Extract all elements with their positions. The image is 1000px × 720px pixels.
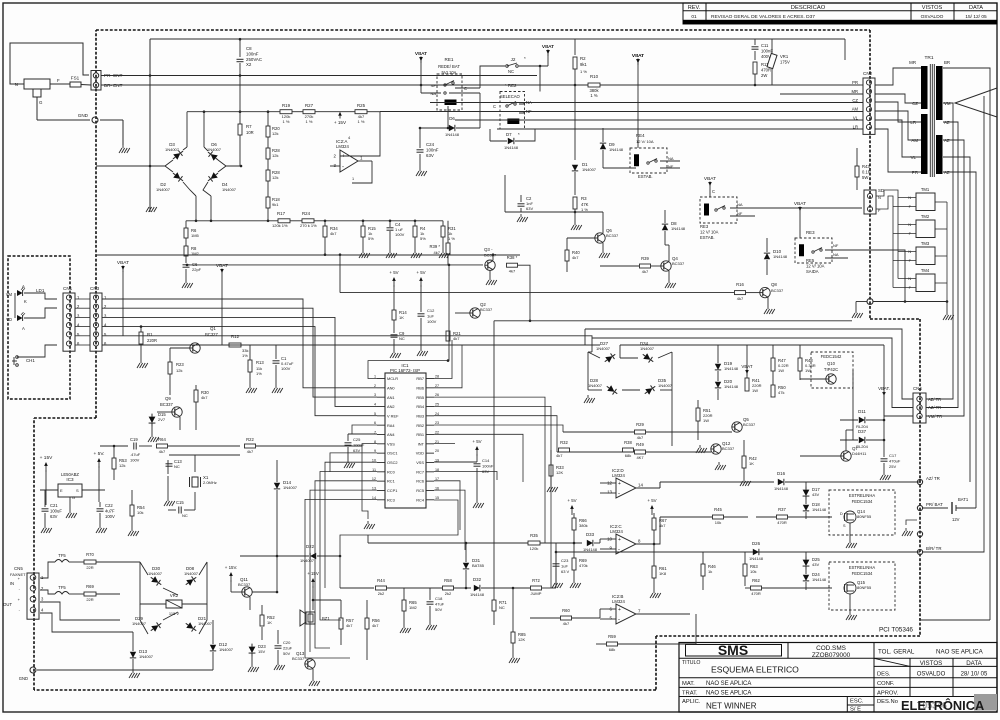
svg-text:15V: 15V bbox=[258, 649, 265, 654]
svg-text:R3: R3 bbox=[581, 196, 587, 201]
svg-text:10k: 10k bbox=[137, 510, 143, 515]
svg-text:12K: 12K bbox=[518, 637, 525, 642]
svg-text:C: C bbox=[464, 86, 467, 91]
svg-text:N: N bbox=[15, 82, 18, 87]
svg-text:R7: R7 bbox=[246, 124, 252, 129]
svg-text:250VAC: 250VAC bbox=[246, 57, 262, 62]
svg-text:NAO SE APLICA: NAO SE APLICA bbox=[936, 649, 984, 656]
svg-text:Q10: Q10 bbox=[827, 361, 836, 366]
svg-text:R37: R37 bbox=[778, 507, 786, 512]
svg-text:43V: 43V bbox=[812, 492, 819, 497]
svg-text:+ 5V: + 5V bbox=[416, 270, 425, 275]
svg-text:TF5: TF5 bbox=[58, 553, 66, 558]
svg-text:100nF: 100nF bbox=[246, 51, 259, 56]
svg-text:+: + bbox=[342, 154, 345, 160]
svg-text:4k7: 4k7 bbox=[159, 449, 166, 454]
svg-text:TM4: TM4 bbox=[921, 268, 930, 273]
svg-text:RC5: RC5 bbox=[416, 488, 424, 493]
svg-text:4k7: 4k7 bbox=[737, 296, 744, 301]
svg-text:1N4148: 1N4148 bbox=[749, 556, 764, 561]
svg-text:12k: 12k bbox=[176, 368, 182, 373]
svg-text:100nF: 100nF bbox=[482, 463, 494, 468]
svg-text:NC: NC bbox=[499, 605, 505, 610]
svg-text:CN5: CN5 bbox=[14, 566, 23, 571]
svg-text:C24: C24 bbox=[426, 142, 435, 147]
svg-text:LE50ABZ: LE50ABZ bbox=[61, 472, 79, 477]
svg-text:50V: 50V bbox=[435, 607, 442, 612]
svg-text:PCI T05346: PCI T05346 bbox=[879, 627, 913, 634]
svg-text:E: E bbox=[60, 488, 63, 493]
svg-text:5%: 5% bbox=[368, 236, 374, 241]
svg-text:LM324: LM324 bbox=[336, 144, 349, 149]
svg-text:1M2: 1M2 bbox=[409, 605, 418, 610]
svg-text:NC: NC bbox=[174, 464, 180, 469]
svg-text:1N4007: 1N4007 bbox=[582, 167, 597, 172]
svg-text:PR: PR bbox=[852, 80, 858, 85]
svg-text:D6: D6 bbox=[449, 116, 455, 121]
svg-text:VM: VM bbox=[6, 292, 13, 297]
svg-text:REDE/ BAT: REDE/ BAT bbox=[438, 64, 460, 69]
svg-text:VR1: VR1 bbox=[780, 54, 789, 59]
svg-text:APLIC.: APLIC. bbox=[682, 699, 701, 705]
svg-text:+ 5V: + 5V bbox=[647, 498, 656, 503]
svg-text:TITULO: TITULO bbox=[682, 660, 700, 666]
svg-text:R39 *: R39 * bbox=[430, 244, 441, 249]
svg-text:R23: R23 bbox=[176, 362, 184, 367]
svg-text:1N4007: 1N4007 bbox=[219, 647, 234, 652]
svg-text:120k 1%: 120k 1% bbox=[272, 223, 288, 228]
svg-text:R22: R22 bbox=[246, 437, 254, 442]
svg-text:43V: 43V bbox=[812, 562, 819, 567]
svg-text:FEDC1534: FEDC1534 bbox=[852, 571, 873, 576]
svg-text:VDD: VDD bbox=[416, 451, 424, 456]
svg-text:1K: 1K bbox=[749, 461, 754, 466]
svg-text:-: - bbox=[618, 491, 620, 497]
svg-text:DES.No: DES.No bbox=[877, 699, 898, 705]
svg-text:VBAT: VBAT bbox=[117, 260, 129, 266]
svg-text:VBAT: VBAT bbox=[704, 176, 716, 182]
svg-text:175V: 175V bbox=[780, 59, 790, 64]
svg-text:1N4148: 1N4148 bbox=[445, 132, 460, 137]
svg-text:VBAT: VBAT bbox=[542, 44, 554, 50]
svg-text:ESTAB.: ESTAB. bbox=[638, 174, 653, 179]
svg-text:C20: C20 bbox=[283, 640, 291, 645]
svg-text:REV.: REV. bbox=[688, 5, 701, 11]
svg-text:APROV.: APROV. bbox=[877, 690, 899, 696]
svg-text:63 V: 63 V bbox=[561, 569, 570, 574]
svg-text:R16: R16 bbox=[736, 282, 744, 287]
svg-text:A: A bbox=[22, 326, 25, 331]
svg-text:9k1: 9k1 bbox=[580, 62, 587, 67]
svg-text:2V7: 2V7 bbox=[158, 417, 166, 422]
svg-text:470R: 470R bbox=[751, 591, 761, 596]
svg-text:10k: 10k bbox=[750, 569, 756, 574]
svg-text:TM1: TM1 bbox=[921, 187, 930, 192]
svg-text:1N4007: 1N4007 bbox=[184, 571, 199, 576]
svg-text:26: 26 bbox=[435, 393, 439, 397]
svg-text:DATA: DATA bbox=[969, 5, 983, 11]
svg-text:47uF: 47uF bbox=[435, 601, 445, 606]
svg-text:4k7: 4k7 bbox=[572, 255, 579, 260]
svg-text:470k: 470k bbox=[579, 563, 588, 568]
svg-text:CCP1: CCP1 bbox=[387, 488, 397, 493]
svg-text:TM3: TM3 bbox=[921, 241, 930, 246]
svg-text:RB5: RB5 bbox=[416, 395, 424, 400]
svg-text:22: 22 bbox=[435, 430, 439, 434]
svg-text:22R: 22R bbox=[86, 565, 93, 570]
svg-text:-: - bbox=[618, 617, 620, 623]
svg-text:1 %: 1 % bbox=[580, 69, 587, 74]
svg-text:R32: R32 bbox=[560, 440, 568, 445]
svg-text:12k: 12k bbox=[119, 463, 125, 468]
svg-text:REVISAO GERAL DE VALORES E ACR: REVISAO GERAL DE VALORES E ACRES. D37 bbox=[711, 14, 815, 20]
svg-text:X2: X2 bbox=[246, 62, 252, 67]
svg-text:100V: 100V bbox=[427, 319, 437, 324]
svg-text:R24: R24 bbox=[302, 211, 311, 216]
svg-text:RA4: RA4 bbox=[387, 423, 395, 428]
svg-text:R59: R59 bbox=[608, 634, 616, 639]
svg-text:1N4007: 1N4007 bbox=[640, 346, 655, 351]
svg-text:COD.SMS: COD.SMS bbox=[816, 645, 846, 652]
svg-text:NA: NA bbox=[737, 202, 743, 207]
svg-text:100V: 100V bbox=[130, 457, 140, 462]
svg-text:C17: C17 bbox=[889, 453, 897, 458]
svg-text:BAT85: BAT85 bbox=[472, 563, 485, 568]
svg-text:RC0: RC0 bbox=[387, 469, 396, 474]
svg-text:20: 20 bbox=[435, 449, 439, 453]
svg-text:ESTRELINHA: ESTRELINHA bbox=[849, 493, 876, 498]
svg-text:RC7: RC7 bbox=[416, 469, 424, 474]
svg-text:D37: D37 bbox=[858, 429, 867, 434]
svg-text:1N4007: 1N4007 bbox=[207, 147, 222, 152]
svg-text:*: * bbox=[518, 132, 520, 137]
svg-text:BC337: BC337 bbox=[480, 307, 493, 312]
svg-text:25V: 25V bbox=[889, 464, 896, 469]
svg-text:4k7: 4k7 bbox=[330, 231, 337, 236]
svg-text:C23: C23 bbox=[561, 558, 569, 563]
svg-text:RC4: RC4 bbox=[416, 497, 425, 502]
svg-text:01: 01 bbox=[691, 14, 697, 20]
svg-text:RB1: RB1 bbox=[416, 432, 424, 437]
svg-text:R72: R72 bbox=[532, 578, 540, 583]
svg-text:ESQUEMA ELETRICO: ESQUEMA ELETRICO bbox=[711, 665, 799, 675]
svg-text:NA: NA bbox=[833, 252, 839, 257]
svg-text:1N4007: 1N4007 bbox=[658, 383, 673, 388]
svg-text:VBAT: VBAT bbox=[415, 51, 427, 57]
svg-text:1 %: 1 % bbox=[283, 119, 290, 124]
svg-text:OSVALDO: OSVALDO bbox=[917, 671, 946, 677]
svg-text:100V: 100V bbox=[281, 366, 291, 371]
svg-text:C18: C18 bbox=[435, 596, 443, 601]
svg-text:PIC 16F72- ISP: PIC 16F72- ISP bbox=[390, 368, 420, 373]
svg-text:12 V/ 10A: 12 V/ 10A bbox=[806, 263, 825, 268]
svg-text:80NF55: 80NF55 bbox=[857, 514, 872, 519]
svg-text:22R: 22R bbox=[86, 597, 93, 602]
svg-text:25: 25 bbox=[435, 402, 439, 406]
svg-text:RL204: RL204 bbox=[856, 444, 869, 449]
svg-text:80NF55: 80NF55 bbox=[857, 585, 872, 590]
svg-text:RC1: RC1 bbox=[387, 479, 395, 484]
svg-text:VD: VD bbox=[6, 317, 12, 322]
svg-text:R10: R10 bbox=[590, 74, 599, 79]
svg-text:BC337: BC337 bbox=[160, 402, 173, 407]
svg-text:AN0: AN0 bbox=[387, 385, 395, 390]
svg-text:D7: D7 bbox=[506, 132, 512, 137]
svg-text:+ 15V: + 15V bbox=[334, 120, 347, 125]
svg-text:CN2: CN2 bbox=[863, 71, 873, 76]
svg-text:12k: 12k bbox=[272, 131, 278, 136]
svg-text:RB6: RB6 bbox=[416, 385, 424, 390]
svg-text:4k7: 4k7 bbox=[201, 395, 208, 400]
svg-text:C19: C19 bbox=[130, 437, 138, 442]
svg-text:12k: 12k bbox=[272, 153, 278, 158]
svg-text:4: 4 bbox=[374, 402, 376, 406]
svg-text:MCLR: MCLR bbox=[387, 376, 398, 381]
svg-text:1N4007: 1N4007 bbox=[283, 485, 298, 490]
svg-text:R35: R35 bbox=[530, 533, 538, 538]
svg-text:1N4148: 1N4148 bbox=[774, 486, 789, 491]
svg-text:+ 5V.: + 5V. bbox=[94, 451, 105, 457]
svg-text:1N4007: 1N4007 bbox=[139, 654, 154, 659]
svg-text:BC337: BC337 bbox=[292, 656, 305, 661]
svg-text:SMS: SMS bbox=[718, 642, 748, 658]
svg-text:1W: 1W bbox=[703, 418, 709, 423]
svg-text:10k: 10k bbox=[715, 520, 721, 525]
svg-text:R58: R58 bbox=[444, 578, 452, 583]
svg-text:63V: 63V bbox=[426, 153, 434, 158]
svg-text:1: 1 bbox=[374, 375, 376, 379]
svg-text:TM2: TM2 bbox=[921, 214, 930, 219]
svg-text:R64: R64 bbox=[158, 437, 166, 442]
svg-text:1%: 1% bbox=[256, 371, 262, 376]
svg-text:9k1: 9k1 bbox=[272, 202, 279, 207]
svg-text:380k: 380k bbox=[579, 523, 588, 528]
svg-text:0.1R: 0.1R bbox=[862, 169, 871, 174]
svg-text:RB4: RB4 bbox=[416, 404, 424, 409]
svg-text:BR: BR bbox=[944, 60, 950, 65]
svg-text:3: 3 bbox=[374, 393, 376, 397]
svg-text:470R: 470R bbox=[761, 67, 771, 72]
svg-text:1N4148: 1N4148 bbox=[470, 592, 485, 597]
svg-text:2k2: 2k2 bbox=[445, 591, 452, 596]
svg-text:+ 15V: + 15V bbox=[40, 455, 53, 461]
svg-text:4k7: 4k7 bbox=[372, 623, 379, 628]
svg-text:VSS: VSS bbox=[416, 460, 424, 465]
svg-text:14: 14 bbox=[638, 483, 643, 488]
svg-text:5: 5 bbox=[374, 412, 376, 416]
svg-text:1K8: 1K8 bbox=[659, 571, 667, 576]
svg-text:NA: NA bbox=[430, 91, 436, 96]
svg-text:TIP42C: TIP42C bbox=[824, 367, 838, 372]
svg-text:2W: 2W bbox=[761, 73, 767, 78]
svg-text:OSC2: OSC2 bbox=[387, 460, 398, 465]
svg-text:-: - bbox=[342, 165, 344, 171]
svg-text:A: A bbox=[22, 284, 25, 289]
svg-text:10R: 10R bbox=[246, 130, 254, 135]
svg-text:FEDC1542: FEDC1542 bbox=[821, 354, 842, 359]
svg-text:AZ/ TR: AZ/ TR bbox=[926, 476, 940, 481]
svg-text:MR: MR bbox=[851, 89, 858, 94]
svg-text:BC337: BC337 bbox=[722, 446, 735, 451]
svg-text:50V: 50V bbox=[283, 651, 290, 656]
svg-text:RE4: RE4 bbox=[636, 133, 645, 138]
svg-text:DATA: DATA bbox=[966, 660, 982, 667]
svg-text:V REF: V REF bbox=[387, 413, 399, 418]
svg-text:+: + bbox=[618, 537, 621, 543]
svg-text:ELETRÔNICA: ELETRÔNICA bbox=[901, 698, 984, 713]
svg-text:C: C bbox=[712, 189, 715, 194]
svg-text:1 %: 1 % bbox=[358, 119, 365, 124]
svg-text:1K: 1K bbox=[267, 620, 272, 625]
svg-text:R39: R39 bbox=[641, 256, 649, 261]
svg-text:28: 28 bbox=[435, 375, 439, 379]
svg-text:OSVALDO: OSVALDO bbox=[921, 14, 944, 20]
svg-text:VISTOS: VISTOS bbox=[922, 5, 943, 11]
svg-text:NC: NC bbox=[508, 69, 514, 74]
svg-text:100V: 100V bbox=[105, 514, 115, 519]
svg-text:R38 *: R38 * bbox=[507, 255, 518, 260]
svg-text:C12: C12 bbox=[427, 308, 435, 313]
svg-text:1N4148: 1N4148 bbox=[773, 254, 788, 259]
svg-text:CZ: CZ bbox=[912, 101, 918, 106]
svg-text:1 %: 1 % bbox=[590, 93, 597, 98]
svg-text:VBAT: VBAT bbox=[741, 364, 752, 369]
svg-text:AZ: AZ bbox=[944, 138, 950, 143]
svg-text:R12: R12 bbox=[231, 334, 240, 339]
svg-text:1%: 1% bbox=[242, 353, 248, 358]
svg-text:4k7: 4k7 bbox=[509, 269, 516, 274]
svg-text:D44H11: D44H11 bbox=[852, 451, 867, 456]
svg-text:RE3: RE3 bbox=[806, 230, 815, 235]
svg-text:R49: R49 bbox=[636, 442, 644, 447]
svg-text:* RE2: * RE2 bbox=[505, 83, 517, 88]
svg-text:AN2: AN2 bbox=[387, 404, 395, 409]
svg-text:68k: 68k bbox=[609, 647, 615, 652]
svg-text:SELECAO: SELECAO bbox=[500, 94, 521, 99]
svg-text:1N4148: 1N4148 bbox=[504, 145, 519, 150]
svg-text:Q9: Q9 bbox=[165, 396, 171, 401]
svg-text:63V: 63V bbox=[50, 514, 58, 519]
svg-text:470R: 470R bbox=[777, 520, 787, 525]
svg-text:R69: R69 bbox=[86, 584, 94, 589]
svg-text:DESCRICAO: DESCRICAO bbox=[791, 5, 826, 11]
svg-text:D26: D26 bbox=[752, 541, 761, 546]
svg-text:NF: NF bbox=[833, 243, 839, 248]
svg-text:ZZOB079000: ZZOB079000 bbox=[812, 652, 851, 659]
svg-text:S/ E: S/ E bbox=[850, 707, 861, 713]
svg-text:4k7: 4k7 bbox=[247, 449, 254, 454]
svg-text:AN1: AN1 bbox=[387, 395, 395, 400]
svg-text:RC6: RC6 bbox=[416, 479, 424, 484]
svg-text:C25: C25 bbox=[353, 437, 361, 442]
svg-text:63V: 63V bbox=[353, 448, 360, 453]
svg-text:AM: AM bbox=[852, 107, 859, 112]
svg-text:1N4007: 1N4007 bbox=[588, 383, 603, 388]
svg-text:+ 5V: + 5V bbox=[567, 498, 576, 503]
svg-text:C22: C22 bbox=[105, 503, 113, 508]
svg-text:VBAT: VBAT bbox=[632, 53, 644, 59]
svg-text:NET WINNER: NET WINNER bbox=[706, 701, 757, 710]
svg-text:LM324: LM324 bbox=[612, 473, 625, 478]
svg-text:D16: D16 bbox=[777, 471, 786, 476]
svg-text:C21: C21 bbox=[50, 503, 58, 508]
svg-text:MR: MR bbox=[909, 60, 916, 65]
svg-text:1K: 1K bbox=[399, 315, 404, 320]
svg-text:4k7: 4k7 bbox=[453, 336, 460, 341]
svg-text:JUMP: JUMP bbox=[531, 591, 542, 596]
svg-text:100nF: 100nF bbox=[353, 442, 365, 447]
svg-text:28/ 10/ 05: 28/ 10/ 05 bbox=[961, 671, 988, 677]
svg-text:RE5: RE5 bbox=[806, 258, 815, 263]
svg-text:1N4148: 1N4148 bbox=[583, 547, 598, 552]
svg-text:INT: INT bbox=[418, 441, 425, 446]
svg-text:1uF: 1uF bbox=[561, 563, 568, 568]
svg-text:24: 24 bbox=[435, 412, 439, 416]
svg-text:470uF: 470uF bbox=[889, 458, 901, 463]
svg-text:RB7: RB7 bbox=[416, 376, 424, 381]
svg-text:4K7: 4K7 bbox=[636, 455, 644, 460]
svg-text:+: + bbox=[618, 481, 621, 487]
svg-text:NAO SE APLICA: NAO SE APLICA bbox=[706, 681, 751, 687]
svg-text:AZ/ TR: AZ/ TR bbox=[928, 397, 941, 402]
svg-text:R60: R60 bbox=[562, 608, 570, 613]
svg-text:CN4: CN4 bbox=[913, 386, 922, 391]
svg-text:G: G bbox=[72, 495, 75, 500]
svg-text:PR: PR bbox=[912, 170, 918, 175]
svg-text:ESC.: ESC. bbox=[850, 699, 864, 705]
svg-text:NF: NF bbox=[431, 83, 437, 88]
svg-text:1W: 1W bbox=[805, 368, 811, 373]
svg-text:1 %: 1 % bbox=[581, 207, 588, 212]
svg-text:1W: 1W bbox=[752, 388, 758, 393]
svg-text:R19: R19 bbox=[282, 103, 291, 108]
svg-text:5W: 5W bbox=[862, 175, 868, 180]
svg-text:R27: R27 bbox=[305, 103, 314, 108]
svg-text:C14: C14 bbox=[482, 458, 490, 463]
svg-text:BC337: BC337 bbox=[672, 261, 685, 266]
svg-text:ESTRELINHA: ESTRELINHA bbox=[849, 565, 876, 570]
svg-text:63V: 63V bbox=[526, 206, 533, 211]
svg-text:1N4007: 1N4007 bbox=[222, 187, 237, 192]
svg-text:23: 23 bbox=[435, 421, 439, 425]
svg-text:1 %: 1 % bbox=[448, 236, 455, 241]
svg-text:AN4: AN4 bbox=[387, 432, 395, 437]
svg-text:BC337: BC337 bbox=[743, 422, 756, 427]
svg-text:LM324: LM324 bbox=[610, 529, 623, 534]
svg-text:1N4007: 1N4007 bbox=[165, 147, 180, 152]
svg-text:C8: C8 bbox=[246, 46, 252, 51]
svg-text:1N4148: 1N4148 bbox=[671, 226, 686, 231]
svg-text:+: + bbox=[618, 607, 621, 613]
svg-text:NA: NA bbox=[668, 156, 674, 161]
svg-text:TF5: TF5 bbox=[58, 585, 66, 590]
svg-text:1N4148: 1N4148 bbox=[724, 366, 739, 371]
svg-text:IC3: IC3 bbox=[66, 477, 74, 482]
svg-text:22uF: 22uF bbox=[283, 645, 293, 650]
svg-text:DES.: DES. bbox=[877, 671, 891, 677]
svg-text:D: D bbox=[840, 512, 843, 516]
svg-text:100uF: 100uF bbox=[50, 508, 62, 513]
svg-text:RE3: RE3 bbox=[700, 224, 709, 229]
svg-text:C: C bbox=[493, 104, 496, 109]
svg-text:VBAT: VBAT bbox=[216, 263, 228, 269]
svg-text:1N4007: 1N4007 bbox=[300, 558, 315, 563]
svg-text:D33: D33 bbox=[586, 532, 595, 537]
svg-text:LM324: LM324 bbox=[612, 599, 625, 604]
svg-text:OSC1: OSC1 bbox=[387, 451, 398, 456]
svg-text:BZ1: BZ1 bbox=[322, 616, 330, 621]
svg-text:BC337: BC337 bbox=[771, 288, 784, 293]
